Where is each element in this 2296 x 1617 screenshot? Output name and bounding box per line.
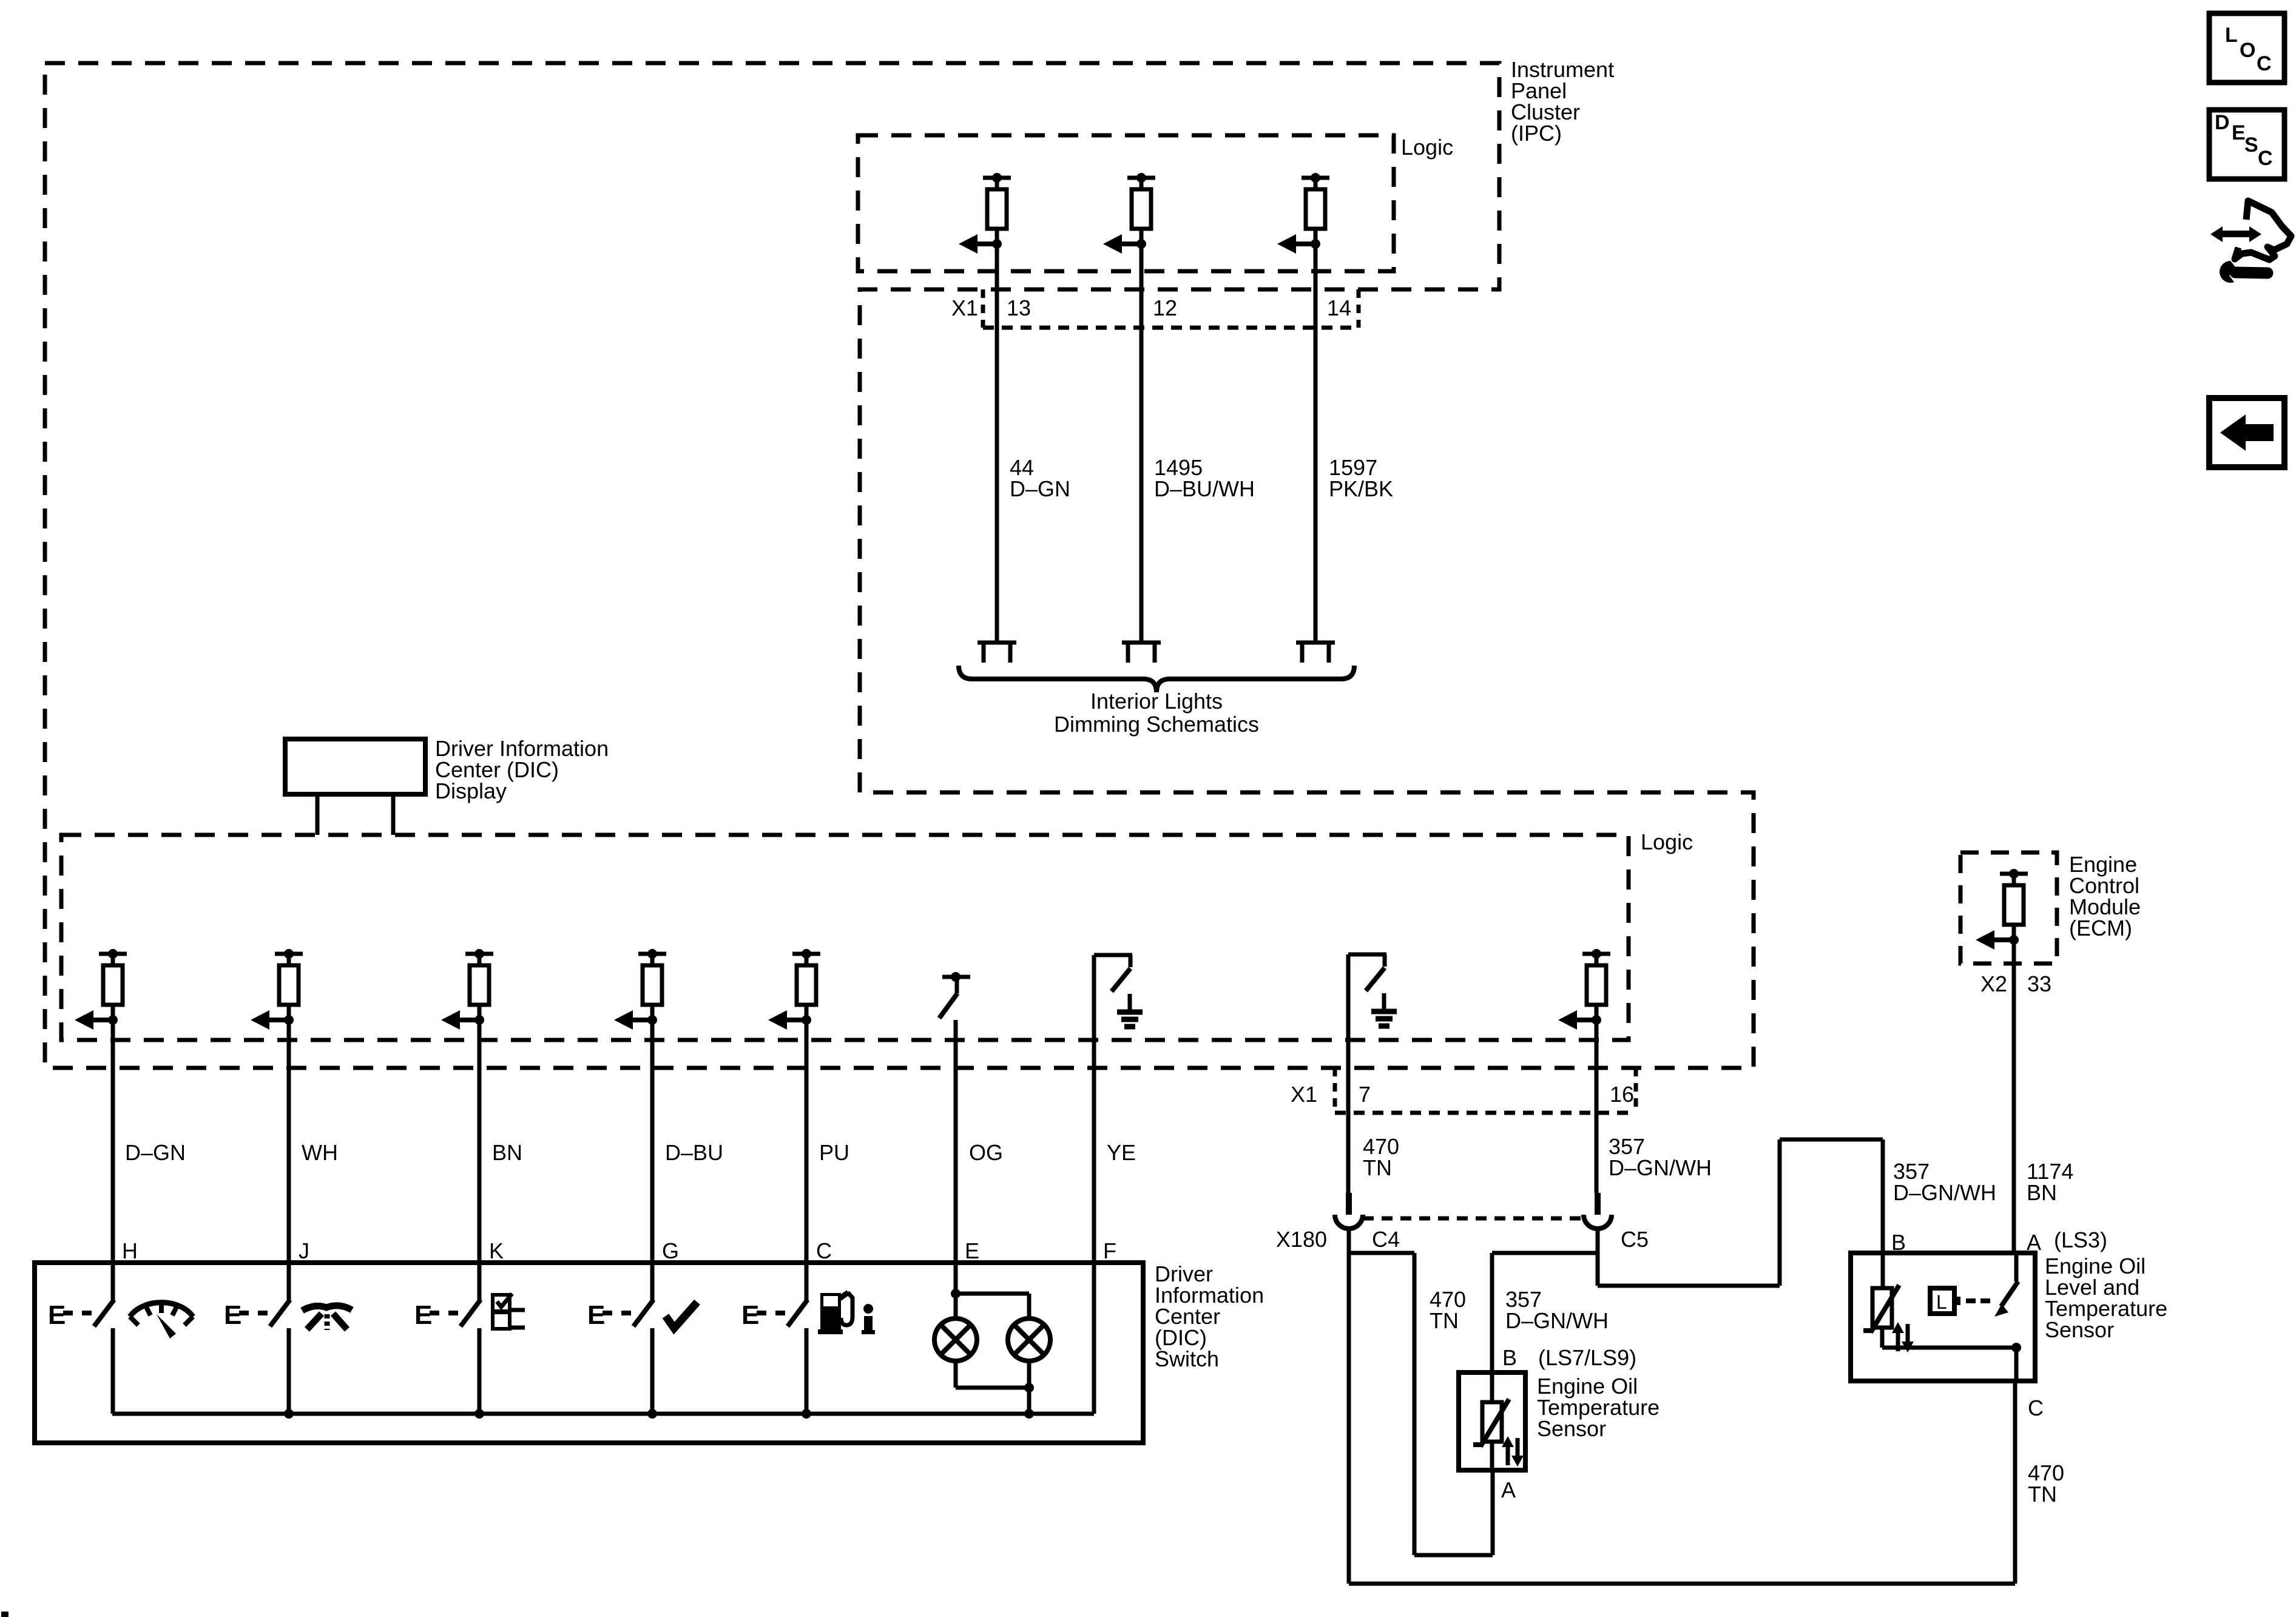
svg-text:K: K: [489, 1238, 504, 1263]
svg-text:C: C: [2258, 147, 2273, 170]
svg-text:Logic: Logic: [1401, 135, 1453, 160]
svg-text:A: A: [1501, 1477, 1516, 1502]
svg-text:13: 13: [1007, 295, 1031, 320]
svg-text:C4: C4: [1372, 1227, 1400, 1252]
svg-text:X2: X2: [1980, 971, 2007, 996]
svg-text:C: C: [2257, 52, 2272, 75]
svg-text:16: 16: [1610, 1082, 1634, 1107]
svg-text:Sensor: Sensor: [1537, 1416, 1606, 1441]
svg-text:(LS3): (LS3): [2054, 1227, 2107, 1252]
svg-text:L: L: [2225, 24, 2238, 47]
svg-text:H: H: [122, 1238, 138, 1263]
svg-text:D–GN/WH: D–GN/WH: [1609, 1155, 1712, 1180]
svg-text:X180: X180: [1276, 1227, 1327, 1252]
svg-text:S: S: [2244, 133, 2258, 157]
svg-text:D–BU: D–BU: [665, 1140, 723, 1165]
svg-text:OG: OG: [969, 1140, 1003, 1165]
svg-text:(ECM): (ECM): [2069, 916, 2132, 940]
svg-text:WH: WH: [302, 1140, 338, 1165]
svg-text:E: E: [48, 1300, 66, 1330]
svg-text:TN: TN: [1430, 1308, 1459, 1333]
svg-text:F: F: [1103, 1238, 1116, 1263]
svg-text:7: 7: [1359, 1082, 1371, 1107]
svg-text:(IPC): (IPC): [1511, 121, 1562, 146]
svg-text:BN: BN: [2027, 1180, 2057, 1205]
svg-text:D–GN: D–GN: [1010, 476, 1070, 501]
svg-text:D–BU/WH: D–BU/WH: [1154, 476, 1255, 501]
svg-text:Switch: Switch: [1155, 1346, 1219, 1371]
svg-text:33: 33: [2027, 971, 2051, 996]
svg-text:X1: X1: [951, 295, 978, 320]
svg-text:G: G: [662, 1238, 679, 1263]
svg-text:12: 12: [1153, 295, 1177, 320]
svg-text:D–GN/WH: D–GN/WH: [1893, 1180, 1996, 1205]
svg-text:PU: PU: [819, 1140, 849, 1165]
svg-text:Dimming Schematics: Dimming Schematics: [1054, 712, 1259, 737]
svg-text:C: C: [816, 1238, 832, 1263]
svg-text:Interior Lights: Interior Lights: [1090, 689, 1223, 714]
svg-text:B: B: [1502, 1345, 1517, 1370]
svg-text:E: E: [965, 1238, 979, 1263]
svg-text:Display: Display: [435, 778, 507, 803]
svg-text:YE: YE: [1107, 1140, 1136, 1165]
svg-text:BN: BN: [492, 1140, 522, 1165]
svg-text:L: L: [1936, 1291, 1947, 1313]
svg-text:B: B: [1891, 1230, 1906, 1255]
svg-text:E: E: [224, 1300, 241, 1330]
svg-text:D: D: [2215, 111, 2230, 134]
svg-text:X1: X1: [1291, 1082, 1317, 1107]
svg-text:C: C: [2028, 1396, 2044, 1420]
svg-text:E: E: [587, 1300, 605, 1330]
svg-text:TN: TN: [2028, 1482, 2057, 1507]
svg-text:J: J: [299, 1238, 309, 1263]
svg-text:C5: C5: [1621, 1227, 1649, 1252]
svg-text:D–GN: D–GN: [125, 1140, 186, 1165]
svg-text:E: E: [414, 1300, 432, 1330]
svg-text:A: A: [2027, 1230, 2041, 1255]
svg-text:14: 14: [1327, 295, 1351, 320]
svg-text:E: E: [2232, 121, 2246, 144]
svg-text:O: O: [2240, 39, 2255, 62]
svg-text:Logic: Logic: [1641, 829, 1693, 854]
svg-text:PK/BK: PK/BK: [1329, 476, 1393, 501]
svg-text:Sensor: Sensor: [2045, 1317, 2114, 1342]
svg-text:E: E: [741, 1300, 759, 1330]
svg-text:D–GN/WH: D–GN/WH: [1505, 1308, 1609, 1333]
svg-text:TN: TN: [1363, 1155, 1392, 1180]
svg-text:(LS7/LS9): (LS7/LS9): [1538, 1345, 1636, 1370]
